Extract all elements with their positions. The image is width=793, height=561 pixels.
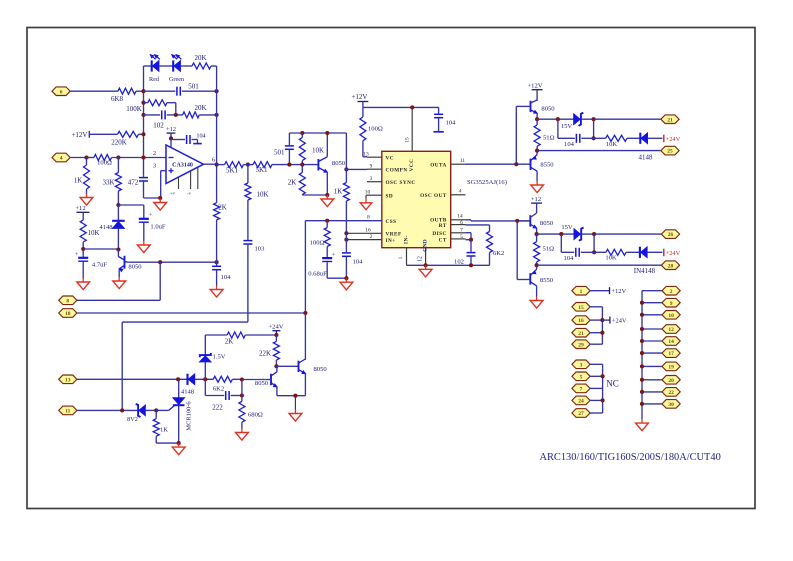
pin 4 OSC OUT bbox=[420, 189, 465, 200]
wire +12V rail bbox=[363, 106, 439, 108]
resistor R-2K b bbox=[299, 165, 327, 195]
resistor R-33K bbox=[115, 158, 121, 206]
svg-text:9: 9 bbox=[370, 163, 373, 169]
junction dot OUTA branch bbox=[514, 162, 518, 166]
wire conn14 bbox=[642, 340, 662, 342]
wire conn8 net bbox=[77, 262, 160, 300]
junction dot conn16 bbox=[600, 318, 604, 322]
resistor R-220K bbox=[89, 131, 143, 137]
label Green bbox=[169, 76, 184, 83]
capacitor C-0.68uF bbox=[322, 252, 335, 279]
junction dot SCR anode bbox=[176, 377, 180, 381]
svg-text:6K8: 6K8 bbox=[111, 95, 124, 103]
power flag +24V drv2 bbox=[664, 249, 681, 257]
junction dot opamp supply bbox=[169, 136, 173, 140]
svg-text:12: 12 bbox=[668, 327, 674, 333]
wire conn22 bbox=[642, 391, 662, 393]
wire conn7 bbox=[590, 387, 603, 389]
label 1K input bbox=[74, 177, 83, 185]
wire DISC to CT col bbox=[466, 233, 472, 240]
svg-text:10: 10 bbox=[365, 189, 371, 195]
wire drv2 zener row bbox=[537, 232, 574, 236]
wire COMPN row bbox=[346, 168, 367, 170]
label SG3525AJ(16) bbox=[467, 179, 507, 186]
svg-text:102: 102 bbox=[454, 259, 464, 266]
capacitor C-104 output rail bbox=[212, 266, 221, 285]
wire inverting-input node vertical rail bbox=[143, 66, 145, 176]
ground op-amp input bbox=[154, 199, 167, 211]
transistor Q1 8050 bbox=[118, 250, 128, 278]
svg-text:4.7uF: 4.7uF bbox=[92, 262, 108, 269]
svg-text:15: 15 bbox=[405, 137, 411, 143]
wire conn6 to 6K8 bbox=[70, 90, 118, 92]
label 1.0uF bbox=[150, 224, 166, 231]
svg-text:15: 15 bbox=[578, 305, 584, 311]
svg-text:SD: SD bbox=[386, 193, 394, 199]
label MCR100-6 bbox=[186, 401, 193, 430]
junction dot gnd row bbox=[158, 196, 162, 200]
junction dot conn21b bbox=[600, 331, 604, 335]
svg-text:100K: 100K bbox=[126, 105, 142, 113]
junction dot 22K top bbox=[274, 333, 278, 337]
svg-text:14: 14 bbox=[457, 214, 463, 220]
wire IN+ row bbox=[346, 239, 381, 241]
svg-text:RT: RT bbox=[439, 223, 447, 229]
resistor R-51 drv2 bbox=[534, 234, 540, 265]
svg-text:CA3140: CA3140 bbox=[172, 162, 193, 168]
wire conn18 to CSS node bbox=[77, 312, 306, 314]
svg-text:+12V: +12V bbox=[612, 288, 627, 295]
wire CSS down to Q8 bbox=[304, 313, 306, 360]
label 104 drv1 bbox=[564, 141, 575, 148]
LED D1 Red bbox=[144, 55, 174, 72]
resistor R-22K bbox=[273, 335, 279, 366]
svg-text:8: 8 bbox=[367, 215, 370, 221]
svg-text:21: 21 bbox=[667, 117, 673, 123]
svg-text:1.5V: 1.5V bbox=[213, 354, 226, 361]
capacitor C-104 chip top bbox=[433, 107, 443, 131]
capacitor C-222 bbox=[226, 391, 242, 400]
junction dot 1K branch bbox=[84, 155, 88, 159]
zener D-1.5V bbox=[200, 353, 211, 379]
pin 10 SD bbox=[365, 189, 393, 199]
connector 21b bbox=[572, 328, 590, 337]
connector 9 bbox=[662, 298, 680, 307]
svg-text:104: 104 bbox=[196, 133, 205, 140]
label 100K bbox=[126, 105, 142, 113]
wire conn21b bbox=[590, 332, 602, 334]
wire conn15 bbox=[590, 307, 602, 344]
capacitor C-472 bbox=[139, 176, 148, 198]
svg-text:COMPN: COMPN bbox=[386, 168, 408, 174]
resistor R-20K top bbox=[192, 63, 217, 69]
resistor R-680 bbox=[239, 396, 245, 429]
ground below 680 bbox=[236, 429, 249, 441]
junction dot 5K1 mid bbox=[246, 163, 250, 167]
power flag +12V left bbox=[71, 131, 89, 139]
junction dot drv1 zener right bbox=[592, 117, 596, 121]
capacitor C-501 b bbox=[285, 133, 294, 165]
pin 7 DISC bbox=[432, 227, 465, 237]
junction dot conn30 bbox=[640, 402, 644, 406]
svg-text:15V: 15V bbox=[561, 224, 573, 231]
wire conn19 bbox=[642, 365, 662, 367]
connector 14 bbox=[662, 337, 680, 346]
capacitor C-501 feedback bbox=[144, 87, 217, 96]
junction dot CSS conn18 bbox=[303, 311, 307, 315]
svg-text:8550: 8550 bbox=[540, 277, 554, 284]
svg-text:VCC: VCC bbox=[409, 159, 415, 172]
pin 15 VCC bbox=[405, 107, 416, 171]
svg-text:8050: 8050 bbox=[128, 264, 142, 271]
junction dot conn14 bbox=[640, 339, 644, 343]
svg-text:2: 2 bbox=[670, 289, 673, 295]
wire OUTB net bbox=[466, 220, 531, 221]
svg-text:+: + bbox=[75, 251, 79, 258]
svg-text:SG3525AJ(16): SG3525AJ(16) bbox=[467, 179, 507, 186]
junction dot output rail 102 row bbox=[215, 113, 219, 117]
wire Q1 collector row bbox=[128, 261, 216, 263]
resistor R-100ohm input bbox=[87, 155, 112, 161]
svg-text:IN4148: IN4148 bbox=[634, 267, 656, 275]
svg-text:-v: -v bbox=[187, 191, 192, 196]
junction dot IN+ row bbox=[344, 238, 348, 242]
capacitor C-104 drv1 bbox=[558, 134, 594, 143]
label 8550 Q6 bbox=[540, 277, 554, 284]
label 33K bbox=[102, 179, 114, 187]
junction dot output rail 501 row bbox=[215, 89, 219, 93]
junction dot 102 bottom bbox=[469, 263, 473, 267]
svg-text:104: 104 bbox=[221, 274, 232, 281]
wire conn16 bbox=[590, 319, 602, 321]
op-amp pin3 wire bbox=[161, 171, 166, 198]
label 220K bbox=[111, 139, 127, 147]
wire drv2 loop right bbox=[593, 234, 595, 252]
wire feedback long horizontal bbox=[122, 322, 248, 410]
junction dot 10Kc bottom bbox=[300, 163, 304, 167]
node A dot 102 row bbox=[141, 113, 145, 117]
resistor R-2K c bbox=[205, 332, 276, 338]
thyristor Q9 MCR100-6 bbox=[173, 379, 185, 443]
junction dot emitter row bbox=[293, 394, 297, 398]
wire conn24 bbox=[590, 399, 603, 401]
connector 17 bbox=[662, 349, 680, 358]
svg-text:5K1: 5K1 bbox=[226, 167, 239, 175]
svg-text:10: 10 bbox=[668, 313, 674, 319]
diode D-4148 b bbox=[188, 374, 214, 385]
zener D-15V drv2 bbox=[574, 228, 594, 241]
label 4148 drv1 bbox=[639, 154, 654, 162]
resistor R-1K b bbox=[153, 410, 159, 443]
connector 29 bbox=[572, 340, 590, 349]
svg-text:DISC: DISC bbox=[432, 231, 446, 237]
junction dot base node bbox=[116, 247, 120, 251]
connector 26 bbox=[661, 230, 679, 239]
svg-text:8550: 8550 bbox=[540, 162, 554, 169]
diode D-4148 vertical bbox=[112, 205, 125, 250]
connector 24 bbox=[572, 396, 590, 405]
junction dot Q2 collector top bbox=[325, 131, 329, 135]
svg-text:13: 13 bbox=[65, 377, 71, 383]
label 4148 b bbox=[181, 389, 195, 396]
svg-text:+24V: +24V bbox=[268, 324, 283, 331]
svg-text:20: 20 bbox=[668, 378, 674, 384]
pin 9 COMPN bbox=[367, 163, 408, 173]
junction dot drv1 104 right bbox=[592, 136, 596, 140]
ground SD pin bbox=[360, 195, 372, 209]
svg-text:27: 27 bbox=[578, 411, 584, 417]
label 8050 Q5 bbox=[540, 220, 554, 227]
title text bbox=[540, 452, 721, 463]
svg-text:18: 18 bbox=[65, 311, 71, 317]
label 8050 Q7 bbox=[255, 380, 269, 387]
svg-text:+24V: +24V bbox=[666, 250, 681, 257]
svg-text:OSC OUT: OSC OUT bbox=[420, 193, 447, 199]
power flag +24V mid bbox=[268, 324, 283, 335]
junction dot conn5 bbox=[601, 374, 605, 378]
svg-text:472: 472 bbox=[128, 179, 139, 187]
label 100ohm chip bbox=[368, 126, 383, 133]
svg-text:0.68uF: 0.68uF bbox=[308, 271, 327, 278]
transistor Q4 8550 bbox=[531, 151, 538, 181]
capacitor C-102 feedback bbox=[144, 110, 183, 119]
resistor R-6K2 b bbox=[213, 376, 242, 382]
svg-text:NC: NC bbox=[606, 379, 619, 389]
label 51ohm drv2 bbox=[543, 246, 555, 253]
junction dot Q5 emitter bbox=[535, 232, 539, 236]
label 8V2 bbox=[127, 416, 138, 423]
svg-text:20K: 20K bbox=[194, 54, 206, 62]
svg-text:29: 29 bbox=[578, 342, 584, 348]
junction dot op-amp output bbox=[215, 163, 219, 167]
resistor R-10K bias bbox=[80, 212, 86, 249]
wire 33K-bottom to 1.0uF bbox=[118, 204, 143, 206]
power flag +12V conn1 bbox=[610, 287, 627, 295]
svg-text:10K: 10K bbox=[605, 255, 617, 262]
junction dot 680 node bbox=[240, 377, 244, 381]
svg-text:220K: 220K bbox=[111, 139, 127, 147]
svg-text:28: 28 bbox=[668, 263, 674, 269]
wire conn9 bbox=[642, 302, 662, 304]
resistor R-1K compn bbox=[343, 169, 349, 233]
wire drv2 loop left bbox=[560, 234, 562, 252]
svg-text:Green: Green bbox=[169, 76, 184, 83]
wire drv2 to conn28 bbox=[537, 264, 662, 266]
svg-text:15V: 15V bbox=[561, 123, 573, 130]
svg-text:51Ω: 51Ω bbox=[543, 135, 555, 142]
svg-text:104: 104 bbox=[564, 141, 575, 148]
svg-text:1: 1 bbox=[580, 289, 583, 295]
label 104 drv2 bbox=[564, 255, 575, 262]
svg-text:104: 104 bbox=[564, 255, 575, 262]
resistor R-10K drv1 bbox=[594, 135, 640, 141]
ground below 1K bbox=[80, 194, 93, 206]
power flag +12 op-amp bbox=[166, 126, 176, 138]
connector 6 bbox=[52, 87, 70, 96]
junction dot 222 right bbox=[240, 393, 244, 397]
resistor R-20K feedback bbox=[183, 112, 217, 118]
junction dot conn24 bbox=[601, 398, 605, 402]
junction dot compn rail top bbox=[344, 167, 348, 171]
resistor R-10K c bbox=[299, 133, 305, 165]
connector 16 bbox=[572, 316, 590, 325]
svg-text:5: 5 bbox=[460, 234, 463, 240]
connector 20 bbox=[662, 376, 680, 385]
connector 28 bbox=[661, 261, 679, 270]
wire CSS row bbox=[305, 220, 381, 222]
svg-text:17: 17 bbox=[668, 351, 674, 357]
svg-text:+: + bbox=[332, 252, 336, 259]
svg-text:1.0uF: 1.0uF bbox=[150, 224, 166, 231]
resistor R-5K1 a bbox=[217, 162, 244, 168]
label 0.68uF bbox=[308, 271, 327, 278]
svg-text:2K: 2K bbox=[225, 338, 234, 346]
label 501 b bbox=[274, 149, 285, 157]
wire conn27 bbox=[590, 412, 603, 414]
svg-text:+12V: +12V bbox=[527, 83, 542, 90]
svg-text:24: 24 bbox=[578, 399, 584, 405]
label 501 feedback bbox=[188, 83, 199, 91]
wire drv1 zener row bbox=[537, 117, 574, 121]
pin 1 IN- bbox=[398, 235, 409, 265]
op-amp power stubs bbox=[170, 167, 198, 195]
ground SCR bbox=[172, 443, 185, 455]
wire 10K to 4148 node bbox=[83, 248, 118, 250]
connector 8 bbox=[59, 296, 77, 305]
wire conn12 bbox=[642, 328, 662, 330]
svg-text:+24V: +24V bbox=[666, 136, 681, 143]
svg-text:16: 16 bbox=[578, 318, 584, 324]
junction dot CT col bbox=[469, 238, 473, 242]
wire to op-amp pin2 bbox=[112, 157, 166, 159]
ground below 1.0uF bbox=[137, 241, 150, 253]
resistor R-5K1 b bbox=[244, 162, 290, 168]
resistor R-10K drv2 bbox=[594, 249, 639, 255]
svg-text:4148: 4148 bbox=[99, 224, 113, 231]
junction dot gnd pin bbox=[424, 263, 428, 267]
wire VREF row bbox=[346, 232, 381, 234]
svg-text:+12V: +12V bbox=[351, 93, 367, 101]
junction dot drv2 104 right bbox=[592, 250, 596, 254]
label 103 bbox=[255, 246, 266, 253]
svg-text:30: 30 bbox=[668, 402, 674, 408]
wire op-amp out bbox=[204, 163, 217, 165]
power flag +12V chip bbox=[351, 93, 368, 107]
svg-text:12: 12 bbox=[418, 256, 424, 262]
svg-text:VC: VC bbox=[386, 156, 395, 162]
resistor R-6K2 rt bbox=[466, 225, 493, 265]
connector 30 bbox=[662, 400, 680, 409]
label 6K8 bbox=[111, 95, 124, 103]
label 102 ct bbox=[454, 259, 464, 266]
svg-text:19: 19 bbox=[668, 365, 674, 371]
wire CT col down bbox=[466, 240, 472, 252]
label 10K drv1 bbox=[606, 141, 618, 148]
svg-text:+: + bbox=[149, 212, 153, 219]
svg-text:7: 7 bbox=[460, 227, 463, 233]
svg-text:6K2: 6K2 bbox=[213, 386, 224, 393]
wire conn11 row bbox=[77, 409, 137, 411]
IC U2 SG3525A body bbox=[382, 151, 451, 247]
connector 4 bbox=[52, 153, 70, 162]
svg-text:51Ω: 51Ω bbox=[543, 246, 555, 253]
ground connector bus bbox=[636, 419, 649, 431]
wire Q7Q8 emitter row bbox=[277, 395, 306, 397]
node A dot 100K row bbox=[141, 101, 145, 105]
junction dot conn10 bbox=[640, 313, 644, 317]
connector 5 bbox=[572, 372, 590, 381]
label 2K output rail bbox=[218, 204, 227, 212]
svg-text:3: 3 bbox=[580, 362, 583, 368]
capacitor C-4.7uF bbox=[75, 249, 89, 278]
wire 22K to Q8 base bbox=[276, 365, 298, 367]
pin 16 VREF bbox=[365, 228, 401, 238]
svg-text:6: 6 bbox=[212, 157, 215, 164]
connector 25 bbox=[661, 146, 679, 155]
transistor Q7 8050 bbox=[265, 366, 277, 395]
wire emitter gnd stem bbox=[294, 396, 296, 410]
resistor R-100ohm b bbox=[324, 221, 330, 258]
svg-text:14: 14 bbox=[668, 339, 674, 345]
connector 18 bbox=[59, 309, 77, 318]
capacitor C-104 op-amp bbox=[171, 135, 202, 144]
capacitor C-103 bbox=[243, 241, 252, 323]
zener D-8V2 bbox=[136, 404, 157, 417]
label 5K1 a bbox=[226, 167, 239, 175]
svg-text:+12: +12 bbox=[531, 196, 541, 203]
svg-text:+v: +v bbox=[170, 191, 176, 196]
junction dot 33K branch bbox=[116, 155, 120, 159]
svg-text:6: 6 bbox=[460, 220, 463, 226]
junction dot gate node bbox=[154, 408, 158, 412]
wire ground row op-amp bbox=[144, 197, 161, 199]
schematic border frame bbox=[27, 28, 755, 509]
svg-text:103: 103 bbox=[255, 246, 266, 253]
pin 2 IN+ bbox=[370, 234, 396, 244]
label 22K bbox=[259, 350, 271, 358]
capacitor C-104 vref bbox=[342, 253, 351, 278]
junction dot Q2 emitter bottom bbox=[325, 193, 329, 197]
label 100ohm b bbox=[310, 240, 325, 247]
junction dot 22K bottom bbox=[274, 364, 278, 368]
label 1K b bbox=[160, 427, 168, 434]
svg-text:2K: 2K bbox=[218, 204, 227, 212]
node A dot 220K row bbox=[141, 132, 145, 136]
junction dot conn11 feedback bbox=[120, 408, 124, 412]
connector 13 bbox=[59, 375, 77, 384]
label 20K feedback bbox=[194, 104, 206, 112]
label 1K compn bbox=[334, 188, 343, 196]
junction dot gnd row right bbox=[344, 276, 348, 280]
op-amp U1 CA3140 bbox=[166, 145, 204, 184]
wire conn1 +12V bbox=[590, 290, 609, 292]
pin 11 OUTA bbox=[430, 158, 465, 168]
svg-text:25: 25 bbox=[667, 149, 673, 155]
connector 15 bbox=[572, 303, 590, 312]
junction dot 100ohm b top bbox=[325, 219, 329, 223]
wire VREF column bbox=[345, 233, 347, 252]
svg-text:5K1: 5K1 bbox=[255, 166, 268, 174]
junction dot 100K-102 bbox=[174, 113, 178, 117]
power flag +12V drv1 bbox=[527, 83, 542, 101]
capacitor C-102 ct bbox=[467, 253, 476, 266]
junction dot OUTB branch bbox=[515, 219, 519, 223]
svg-text:22K: 22K bbox=[259, 350, 271, 358]
junction dot 10K bottom bbox=[81, 247, 85, 251]
label 8050 Q2 bbox=[332, 160, 346, 167]
svg-text:10K: 10K bbox=[87, 229, 99, 237]
svg-text:8: 8 bbox=[66, 298, 69, 304]
